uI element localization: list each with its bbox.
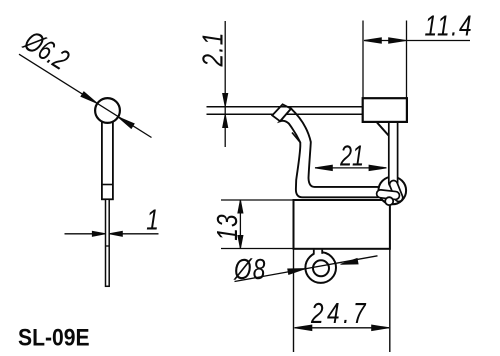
dimension 11.4 label bbox=[425, 9, 474, 42]
svg-text:2.1: 2.1 bbox=[196, 32, 229, 68]
dimension 13 label bbox=[210, 213, 243, 241]
dimension Ø6.2 leader line bbox=[19, 54, 152, 137]
dimension 2.1 label bbox=[196, 32, 229, 68]
dimension 21 arrows bbox=[315, 165, 332, 170]
ball head bbox=[95, 98, 120, 123]
dimension 1 label bbox=[146, 203, 159, 236]
dimension Ø6.2 label bbox=[18, 25, 75, 77]
dimension 2.1 arrows bbox=[223, 94, 228, 107]
dimension 11.4 extension lines bbox=[363, 21, 407, 98]
dimension 1 arrows bbox=[92, 231, 105, 236]
wire tip end face bbox=[272, 104, 291, 121]
clamp chamfer line bbox=[377, 123, 389, 136]
dimension 21 label bbox=[339, 140, 364, 172]
dimension 24.7 arrows bbox=[295, 325, 312, 330]
dimension 1 lines bbox=[65, 233, 159, 235]
hole Ø8 slot notch bbox=[314, 250, 322, 255]
dimension 21 line bbox=[315, 167, 386, 169]
pin rod from clamp bbox=[388, 121, 399, 183]
wire fold line bbox=[292, 133, 300, 143]
wire crossing capsule bbox=[394, 185, 399, 198]
svg-text:24.7: 24.7 bbox=[310, 296, 369, 329]
flat arm bottom line over wire bbox=[287, 113, 363, 115]
flat arm bottom line bbox=[207, 113, 363, 115]
dimension 24.7 extension lines bbox=[294, 208, 390, 353]
coil loop outer circle bbox=[379, 177, 407, 205]
flat arm top line over wire bbox=[262, 106, 363, 108]
dimension 13 line bbox=[239, 200, 241, 249]
body block bbox=[294, 200, 390, 249]
dimension Ø8 arrows bbox=[288, 266, 306, 274]
hole Ø8 inner circle bbox=[313, 260, 329, 276]
spring wire: hook and bottom run (closed outline) bbox=[280, 109, 383, 198]
svg-text:11.4: 11.4 bbox=[425, 9, 474, 42]
pin upper shank bbox=[102, 116, 113, 199]
dimension 24.7 label bbox=[310, 296, 369, 329]
svg-text:13: 13 bbox=[210, 213, 243, 241]
dimension 24.7 line bbox=[295, 327, 390, 329]
coil loop inner hole bbox=[385, 197, 393, 205]
dimension Ø8 leader line bbox=[235, 256, 378, 282]
dimension 11.4 line bbox=[364, 40, 470, 42]
clamp box bbox=[363, 98, 407, 122]
hole Ø8 outer circle bbox=[305, 252, 336, 283]
svg-text:21: 21 bbox=[339, 140, 364, 172]
dimension 11.4 arrows bbox=[364, 38, 381, 43]
dimension Ø6.2 arrows bbox=[81, 92, 99, 106]
flat arm top line bbox=[207, 106, 363, 108]
dimension 2.1 line bbox=[224, 21, 226, 147]
dimension Ø8 label bbox=[233, 252, 266, 285]
svg-text:SL-09E: SL-09E bbox=[18, 324, 90, 351]
wire end capsule over loop bbox=[381, 194, 396, 196]
pin thin tip rod bbox=[106, 199, 110, 286]
svg-text:1: 1 bbox=[146, 203, 159, 236]
dimension 13 extension lines bbox=[221, 200, 294, 249]
dimension 13 arrows bbox=[238, 200, 243, 213]
svg-text:Ø8: Ø8 bbox=[233, 252, 266, 285]
